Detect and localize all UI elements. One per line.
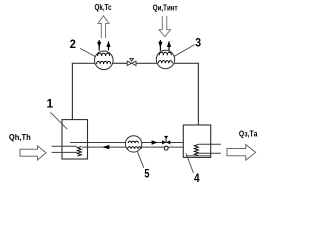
svg-text:1: 1: [47, 97, 54, 111]
flow arrow right on upper line: [152, 140, 158, 144]
svg-text:Qh,Th: Qh,Th: [9, 133, 31, 142]
svg-text:Qз,Tа: Qз,Tа: [239, 129, 258, 138]
wire top-right horizontal: [174, 62, 199, 64]
inner bottom line of tank 4: [186, 155, 211, 157]
external line lower out of tank4: [198, 152, 221, 154]
pointer line for 4: [186, 153, 193, 173]
HX5 lower squiggle: [128, 147, 142, 149]
HX2 upper coil squiggle: [98, 53, 110, 56]
hollow arrow down (Qi): [159, 16, 171, 37]
svg-text:2: 2: [70, 37, 76, 51]
refrigerant line tank1 to HX5 (upper): [70, 142, 126, 144]
hollow arrow right (Qz): [227, 145, 256, 161]
wire between valve and HX3: [136, 62, 157, 64]
external line upper out of tank4: [198, 143, 221, 145]
HX3 upper coil squiggle: [159, 52, 171, 55]
refrigerant line HX5 to tank4 (upper): [142, 142, 184, 144]
HX2 lower coil squiggle: [97, 61, 111, 64]
small arrow out of HX3 (up): [168, 42, 170, 51]
hollow arrow up (Qk): [98, 16, 109, 39]
external supply line upper into tank1: [52, 145, 77, 147]
wire right vertical: [197, 63, 199, 125]
wire left vertical: [71, 63, 73, 120]
HX5 upper squiggle: [128, 141, 138, 143]
pointer line for 5: [137, 151, 144, 168]
tank 1 (left vessel): [62, 120, 88, 159]
pointer line for 3: [174, 45, 194, 57]
refrigerant line tank1 to HX5 (lower): [82, 146, 126, 148]
flow arrow left on lower line: [102, 145, 109, 149]
capillary/omega symbol on lower line: [164, 146, 168, 150]
pointer line for 1: [50, 112, 67, 129]
regenerative heat exchanger circle 5: [125, 136, 141, 152]
svg-text:Qk,Tc: Qk,Tc: [95, 3, 112, 12]
HX3 lower coil squiggle: [158, 61, 172, 64]
small arrow into HX2 (down): [98, 40, 100, 51]
tank 4 (right vessel): [183, 125, 210, 157]
pointer line for 2: [80, 48, 96, 57]
svg-text:Qи,Tинт: Qи,Tинт: [153, 4, 178, 13]
svg-text:4: 4: [194, 171, 200, 185]
external supply line lower into tank1: [52, 151, 78, 153]
svg-text:5: 5: [144, 167, 149, 181]
hollow arrow right (Qh): [20, 146, 46, 160]
svg-text:3: 3: [195, 36, 201, 50]
wire top-left horizontal: [72, 62, 95, 64]
expansion valve V2 on upper line: [162, 136, 170, 145]
heat exchanger circle 3 (evaporator coil): [156, 50, 174, 68]
coil zigzag in tank 4: [194, 144, 198, 155]
refrigerant line HX5 to tank4 (lower): [142, 146, 184, 148]
heat exchanger circle 2 (condenser): [95, 51, 114, 70]
small arrow out of HX2 (up): [108, 42, 110, 51]
wire between HX2 and valve: [113, 62, 128, 64]
small arrow into HX3 (down): [159, 40, 161, 51]
valve V1 (top, between HX2 and HX3): [127, 58, 136, 65]
coil zigzag in tank 1: [77, 146, 81, 156]
